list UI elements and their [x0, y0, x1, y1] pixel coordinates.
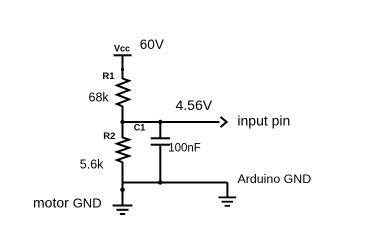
wire R1 to node	[122, 106, 124, 138]
svg-text:R1: R1	[102, 71, 115, 82]
resistor R1	[117, 79, 129, 107]
svg-text:C1: C1	[134, 123, 146, 133]
junction dot capacitor bottom	[158, 180, 162, 184]
resistor R2	[117, 138, 129, 163]
svg-text:60V: 60V	[140, 37, 164, 52]
wire node to arrow	[123, 121, 220, 123]
svg-text:Arduino GND: Arduino GND	[238, 172, 312, 186]
svg-text:input pin: input pin	[237, 113, 290, 129]
junction dot capacitor top	[158, 120, 162, 124]
wire cap bottom	[159, 146, 161, 183]
svg-text:5.6k: 5.6k	[80, 157, 104, 171]
svg-text:R2: R2	[103, 131, 115, 142]
Vcc port symbol	[114, 44, 132, 57]
ground motor	[113, 205, 133, 216]
wire cap top	[159, 122, 161, 138]
wire bottom horizontal	[123, 182, 228, 184]
svg-text:motor GND: motor GND	[33, 195, 102, 211]
svg-text:100nF: 100nF	[168, 142, 201, 154]
node junction dot left	[120, 120, 124, 124]
svg-text:4.56V: 4.56V	[176, 97, 213, 113]
ground Arduino	[218, 197, 236, 207]
svg-text:68k: 68k	[89, 91, 110, 105]
pin dot motor gnd net	[120, 188, 125, 193]
wire Vcc to R1	[122, 56, 124, 79]
svg-text:Vcc: Vcc	[114, 44, 130, 54]
pin dot Vcc net	[121, 68, 124, 71]
arrowhead input pin	[221, 117, 227, 127]
capacitor C1	[151, 137, 170, 145]
wire R2 to motor gnd	[122, 162, 124, 205]
wire down to Arduino ground	[226, 183, 228, 197]
